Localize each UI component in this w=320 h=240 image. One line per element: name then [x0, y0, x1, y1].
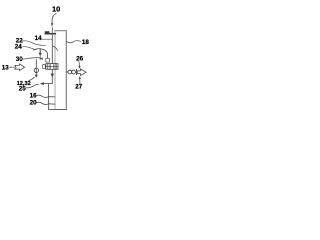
leader for 30: [23, 58, 42, 60]
leader for 25: [26, 84, 39, 88]
pump circle: [34, 68, 38, 72]
upper hose dome: [34, 49, 48, 54]
hose drop to valve: [47, 54, 49, 59]
fan circle left: [68, 70, 72, 74]
fan hub stub: [66, 71, 68, 73]
hose arc into radiator: [53, 46, 58, 50]
return pipe down: [49, 84, 67, 110]
leader for 26: [78, 62, 81, 67]
thermostat flow arrow head: [39, 53, 42, 57]
flow arrow down on pipe: [51, 74, 55, 78]
airflow hollow arrow: [77, 69, 86, 76]
pump outlet stem: [35, 73, 37, 75]
valve box on pipe: [46, 58, 50, 62]
svg-text:18: 18: [82, 39, 90, 46]
leader for 12,32: [29, 77, 35, 81]
wire 16: [37, 95, 55, 97]
pump outlet arrow: [35, 75, 38, 78]
svg-text:10: 10: [52, 5, 60, 14]
leader squiggle for 18: [66, 41, 80, 43]
leader arrow for 10: [52, 13, 56, 23]
pump feed line: [35, 60, 37, 73]
engine block 12,32 crosshatched: [46, 64, 58, 70]
leader for 22: [23, 41, 46, 45]
stem below thermostat arrow: [39, 56, 41, 59]
svg-text:27: 27: [75, 83, 83, 90]
radiator top edge: [55, 30, 66, 32]
hollow arrow 13: [15, 64, 25, 71]
svg-text:25: 25: [19, 85, 27, 92]
svg-text:14: 14: [35, 35, 43, 42]
dash leader for 13: [10, 66, 15, 68]
fan circle right: [72, 70, 76, 74]
svg-text:26: 26: [76, 56, 84, 63]
wire 20: [37, 102, 55, 104]
svg-text:16: 16: [30, 92, 38, 99]
svg-text:24: 24: [15, 44, 23, 51]
leader for 24: [23, 47, 37, 50]
svg-text:20: 20: [30, 100, 38, 107]
fitting left of block: [43, 65, 46, 69]
flow arrow left on lower pipe: [40, 82, 44, 85]
leader for 27: [79, 79, 81, 85]
radiator 18 body: [55, 31, 66, 110]
thermostat flow arrow stem: [39, 49, 41, 53]
pipe below block: [44, 69, 52, 83]
filler cap 14: [45, 32, 49, 35]
svg-text:13: 13: [2, 64, 10, 71]
cap bar: [45, 33, 55, 35]
fan blade bar: [75, 69, 77, 75]
main pipe from cap down: [51, 28, 53, 64]
radiator right edge: [65, 31, 67, 109]
svg-text:30: 30: [16, 56, 24, 63]
leader for 14: [42, 38, 52, 40]
